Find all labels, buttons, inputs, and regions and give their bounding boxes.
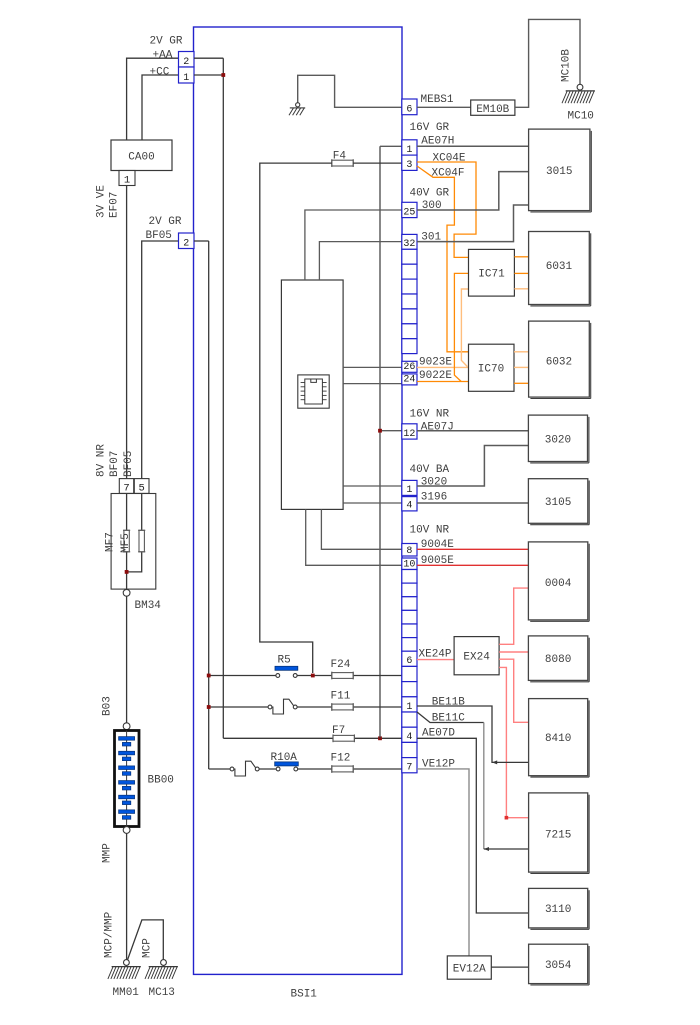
label MMP (rotated) xyxy=(102,843,114,863)
BSI pin 1 (AE07H) xyxy=(402,140,417,156)
svg-text:2: 2 xyxy=(183,57,189,68)
relay R5 label xyxy=(278,655,291,667)
wire 9022E (orange) xyxy=(417,381,469,383)
svg-text:8410: 8410 xyxy=(545,733,571,745)
label BE11B xyxy=(432,697,465,709)
BSI pin 1 (3020) xyxy=(402,480,417,496)
BSI pin 12 (AE07J) xyxy=(402,424,417,440)
connector BM34 xyxy=(123,589,161,612)
wire EX24 to 8080 (salmon) xyxy=(499,651,528,653)
BSI pin 32 (301) xyxy=(402,234,417,250)
fuse F24 label xyxy=(331,659,351,671)
wire through MF5 xyxy=(127,494,142,572)
svg-text:MF5: MF5 xyxy=(120,533,132,553)
junction pin12 / riser xyxy=(378,429,382,433)
wire 301 to 3015 xyxy=(417,205,529,242)
label 40V BA xyxy=(410,464,450,476)
unit 3054 xyxy=(529,944,590,985)
svg-text:MC10: MC10 xyxy=(568,111,594,123)
svg-text:1: 1 xyxy=(406,702,412,713)
unit 3110 xyxy=(529,888,590,929)
label 9023E xyxy=(419,357,452,369)
svg-text:AE07J: AE07J xyxy=(421,422,454,434)
BSI pin 8 (9004E) xyxy=(402,544,417,557)
svg-text:6: 6 xyxy=(406,105,412,116)
svg-text:F12: F12 xyxy=(331,753,351,765)
wire EF07 CA00 to fuse MF7 xyxy=(126,186,128,479)
wire F11 row xyxy=(209,706,402,708)
label BE11C xyxy=(432,713,465,725)
wire pin2 to +battery rail xyxy=(194,57,223,59)
svg-text:MEBS1: MEBS1 xyxy=(421,94,454,106)
label B03 (rotated) xyxy=(102,696,114,716)
wire 3196 to 3105 xyxy=(417,502,528,504)
unit 3015 xyxy=(529,129,592,212)
BSI left pin 2 xyxy=(179,52,195,68)
svg-text:F11: F11 xyxy=(331,691,351,703)
internal ground wire (MEBS1) xyxy=(298,75,402,107)
wire pin2 BF05 to rail xyxy=(194,240,209,242)
svg-text:40V GR: 40V GR xyxy=(410,188,450,200)
relay R5 coil bar xyxy=(275,666,298,670)
label +CC xyxy=(150,67,170,79)
unit IC70 xyxy=(469,344,515,391)
wire pin32 internal (301) xyxy=(319,242,401,280)
BF05 rail vertical xyxy=(208,241,210,769)
svg-text:BF05: BF05 xyxy=(146,230,172,242)
svg-text:BE11B: BE11B xyxy=(432,697,465,709)
svg-text:7215: 7215 xyxy=(545,830,571,842)
wire battery to ground xyxy=(126,833,128,959)
svg-text:8: 8 xyxy=(406,546,412,557)
wire pin26 internal xyxy=(343,366,402,368)
svg-text:1: 1 xyxy=(183,73,189,84)
svg-text:6031: 6031 xyxy=(546,261,573,273)
BSI pin 6 (MEBS1) xyxy=(402,99,417,116)
wire R10A row xyxy=(209,768,402,770)
wire R5 row xyxy=(209,675,402,677)
svg-text:1: 1 xyxy=(406,145,412,156)
svg-text:12: 12 xyxy=(403,429,415,440)
battery BB00 xyxy=(115,731,174,827)
ground MM01 xyxy=(108,960,141,999)
svg-text:2V GR: 2V GR xyxy=(150,36,183,48)
wire pin8 internal xyxy=(321,509,401,549)
BSI spare pin cells (below 10) xyxy=(402,570,417,652)
fuse F24 xyxy=(332,672,353,680)
svg-text:3V VE: 3V VE xyxy=(96,185,108,218)
internal riser wire xyxy=(379,146,381,738)
wire AE07D to 3110 xyxy=(417,738,528,913)
wire BE11C to 7215 xyxy=(417,712,528,851)
BSI pin 6 (XE24P) xyxy=(402,651,417,667)
label MEBS1 xyxy=(421,94,454,106)
wire through MF7 xyxy=(126,494,128,590)
svg-text:MF7: MF7 xyxy=(105,532,117,552)
wire AE07H to 3015 xyxy=(417,145,529,147)
svg-text:F24: F24 xyxy=(331,659,351,671)
svg-text:BM34: BM34 xyxy=(135,600,162,612)
BSI processor block xyxy=(281,280,343,509)
battery terminal circle bottom xyxy=(123,827,130,834)
wire 3020 lower link xyxy=(417,446,528,487)
wire MEBS1 to EM10B xyxy=(417,106,471,108)
wire XC04F (orange) xyxy=(417,166,469,352)
label 3020 xyxy=(421,477,447,489)
label AE07D xyxy=(422,728,455,740)
wires IC71 to 6031 xyxy=(514,257,528,289)
svg-text:EX24: EX24 xyxy=(463,652,490,664)
svg-text:10V NR: 10V NR xyxy=(410,525,450,537)
label 9004E xyxy=(421,539,454,551)
svg-text:1: 1 xyxy=(124,175,130,187)
label 9005E xyxy=(421,555,454,567)
switch contact (F11 row) xyxy=(268,699,297,714)
relay R10A contacts xyxy=(276,767,297,771)
wire XE24P (salmon) xyxy=(417,659,454,661)
unit EX24 xyxy=(454,637,499,675)
wires IC70 to 6032 xyxy=(514,352,529,384)
battery terminal circle top xyxy=(123,723,130,730)
BSI pin 24 (9022E) xyxy=(402,374,417,386)
fuse F12 label xyxy=(331,753,351,765)
relay R5 contacts xyxy=(276,674,297,678)
BSI pin 4 (3196) xyxy=(402,497,417,512)
CA00 pin 1 xyxy=(119,171,135,187)
label XE24P xyxy=(419,649,452,661)
label MCP (rotated) xyxy=(142,938,154,958)
switch contact (R10A row) xyxy=(230,761,259,776)
junction F7 / distribution riser xyxy=(378,736,382,740)
junction BF05 rail / F11 xyxy=(207,705,211,709)
svg-text:4: 4 xyxy=(406,501,412,512)
BSI spare cell xyxy=(402,742,417,757)
wire +CC to pin 1 xyxy=(142,75,179,140)
fuse F11 xyxy=(332,703,353,711)
unit 3105 xyxy=(528,479,589,525)
svg-text:10: 10 xyxy=(403,559,415,570)
svg-text:BSI1: BSI1 xyxy=(291,989,318,1001)
label EF07 (rotated) xyxy=(109,192,121,218)
unit IC71 xyxy=(469,249,515,296)
svg-text:16V NR: 16V NR xyxy=(410,409,450,421)
fuse F11 label xyxy=(331,691,351,703)
svg-text:3015: 3015 xyxy=(546,166,572,178)
wire EX24 to 0004 (salmon) xyxy=(499,588,528,644)
label 10V NR xyxy=(410,525,450,537)
BSI pin 10 (9005E) xyxy=(402,558,417,570)
label XC04E xyxy=(433,153,466,165)
svg-text:2: 2 xyxy=(183,238,189,249)
label MCP/MMP (rotated) xyxy=(104,911,116,958)
unit 7215 xyxy=(529,793,590,874)
svg-text:R5: R5 xyxy=(278,655,291,667)
BSI pin 26 (9023E) xyxy=(402,361,417,373)
fuse F4 xyxy=(332,159,353,167)
BSI pin 4 (AE07D) xyxy=(402,727,417,743)
svg-text:24: 24 xyxy=(403,375,415,386)
BSI pin 3 (XC04) xyxy=(402,155,417,171)
label 16V NR xyxy=(410,409,450,421)
label XC04F xyxy=(432,168,465,180)
junction MF5/MF7 xyxy=(125,570,129,574)
svg-text:3196: 3196 xyxy=(421,492,447,504)
wire pin4 (3196) internal xyxy=(343,502,402,504)
unit EV12A xyxy=(447,956,491,979)
wire MCP to MC13 xyxy=(128,920,164,960)
svg-text:XE24P: XE24P xyxy=(419,649,452,661)
label 2V GR (top) xyxy=(150,36,183,48)
svg-text:3105: 3105 xyxy=(545,497,571,509)
svg-text:BF05: BF05 xyxy=(123,451,135,477)
wire AE07J to 3020 xyxy=(417,430,528,432)
wire EM10B to ground MC10 xyxy=(515,19,580,107)
fuse MF7 xyxy=(123,530,130,552)
BSI left pin 2 (BF05) xyxy=(179,233,195,249)
svg-text:MC10B: MC10B xyxy=(561,49,573,82)
label BF07 (rotated) xyxy=(109,451,121,477)
BSI spare cell xyxy=(402,712,417,727)
label BF05 (rotated) xyxy=(123,451,135,477)
svg-text:4: 4 xyxy=(406,732,412,743)
label 2V GR (BF05) xyxy=(149,216,182,228)
BSI unit box BSI1 xyxy=(194,27,403,1001)
wire XC04E (orange) xyxy=(417,162,476,257)
fusebox pin 5 xyxy=(134,479,149,495)
svg-text:BB00: BB00 xyxy=(148,775,174,787)
svg-text:EM10B: EM10B xyxy=(476,104,509,116)
svg-text:26: 26 xyxy=(403,362,415,373)
wire 9005E (red) xyxy=(417,564,528,566)
svg-text:6: 6 xyxy=(406,656,412,667)
svg-text:3054: 3054 xyxy=(545,960,572,972)
label 9022E xyxy=(419,370,452,382)
svg-text:+CC: +CC xyxy=(150,67,170,79)
svg-text:5: 5 xyxy=(138,483,144,495)
svg-text:3020: 3020 xyxy=(421,477,447,489)
wire F4 net (pin 3 feed) xyxy=(260,163,402,673)
wire 9004E (red) xyxy=(417,548,528,550)
svg-text:3110: 3110 xyxy=(545,904,571,916)
svg-text:0004: 0004 xyxy=(545,578,572,590)
svg-text:MM01: MM01 xyxy=(113,987,140,999)
label +AA xyxy=(153,50,173,62)
wire 9023E (light orange) xyxy=(417,366,469,368)
label 300 xyxy=(422,200,442,212)
label BF05 xyxy=(146,230,172,242)
wire IC71 to IC70 (orange link) xyxy=(454,273,468,381)
wire pin1 (3020) internal xyxy=(343,485,402,487)
unit 8410 xyxy=(529,699,590,778)
wire EX24 to 8410 (salmon) xyxy=(499,659,528,722)
relay R10A coil bar xyxy=(275,762,299,766)
fusebox pin 7 xyxy=(119,479,133,495)
svg-text:MCP: MCP xyxy=(142,938,154,958)
svg-text:EV12A: EV12A xyxy=(453,964,486,976)
svg-text:B03: B03 xyxy=(102,696,114,716)
wire BF05 left xyxy=(142,241,179,479)
junction R5 / F4 net xyxy=(311,674,315,678)
svg-text:XC04E: XC04E xyxy=(433,153,466,165)
wire EV12A to 3054 xyxy=(491,966,528,968)
label AE07H xyxy=(421,136,454,148)
svg-text:8080: 8080 xyxy=(545,654,571,666)
BSI spare cell xyxy=(402,682,417,697)
svg-text:MC13: MC13 xyxy=(149,987,175,999)
svg-text:IC70: IC70 xyxy=(478,364,504,376)
svg-text:MCP/MMP: MCP/MMP xyxy=(104,911,116,958)
wire +AA to pin 2 xyxy=(127,58,179,140)
svg-text:7: 7 xyxy=(406,763,412,774)
svg-text:25: 25 xyxy=(403,207,415,218)
fuse MF5 xyxy=(138,530,145,552)
internal ground symbol xyxy=(289,103,305,116)
label AE07J xyxy=(421,422,454,434)
svg-text:6032: 6032 xyxy=(546,357,572,369)
wire IC71 to IC70 (light link) xyxy=(461,289,468,367)
svg-text:7: 7 xyxy=(123,483,129,495)
svg-text:EF07: EF07 xyxy=(109,192,121,218)
unit 3020 xyxy=(528,415,589,463)
label 16V GR xyxy=(410,122,450,134)
fuse F12 xyxy=(332,765,353,773)
BSI pin 1 (BE11) xyxy=(402,697,417,713)
unit 8080 xyxy=(528,636,589,682)
junction BF05 rail / R5 xyxy=(207,674,211,678)
wire VE12P to EV12A xyxy=(417,769,469,956)
wire pin24 internal xyxy=(343,383,402,385)
wire pin1 internal stub xyxy=(380,145,402,147)
unit CA00 (ignition switch) xyxy=(111,140,172,171)
BSI spare cell (F24) xyxy=(402,666,417,681)
unit 6032 xyxy=(529,321,591,398)
wire pin10 internal xyxy=(306,509,402,565)
wire BM34 to battery xyxy=(126,596,128,723)
svg-text:2V GR: 2V GR xyxy=(149,216,182,228)
svg-text:3: 3 xyxy=(406,160,412,171)
svg-text:BF07: BF07 xyxy=(109,451,121,477)
BSI pin 7 (VE12P) xyxy=(402,758,417,774)
svg-text:8V NR: 8V NR xyxy=(96,444,108,477)
battery + rail vertical xyxy=(222,58,224,738)
fuse F4 label xyxy=(333,150,347,162)
svg-text:MMP: MMP xyxy=(102,843,114,863)
fuse F7 xyxy=(333,734,354,742)
unit 0004 xyxy=(528,542,589,621)
wire pin12 internal stub xyxy=(380,430,402,432)
svg-text:1: 1 xyxy=(406,485,412,496)
svg-text:IC71: IC71 xyxy=(478,269,505,281)
label 8V NR (rotated) xyxy=(96,444,108,477)
label 3V VE (rotated) xyxy=(96,185,108,218)
label 40V GR xyxy=(410,188,450,200)
label 301 xyxy=(421,232,441,244)
svg-text:40V BA: 40V BA xyxy=(410,464,450,476)
relay R10A label xyxy=(271,752,298,764)
wire pin25 internal (300) xyxy=(305,210,402,280)
BSI left pin 1 xyxy=(179,67,195,84)
ground MC13 xyxy=(145,960,178,999)
wire F7 row (battery rail to pin 4) xyxy=(223,737,401,739)
svg-text:+AA: +AA xyxy=(153,50,173,62)
svg-text:9022E: 9022E xyxy=(419,370,452,382)
unit EM10B xyxy=(471,100,515,116)
wire 300 to 3015 xyxy=(417,172,529,210)
wire EX24 to 7215 (salmon) xyxy=(499,667,528,819)
label VE12P xyxy=(422,759,455,771)
unit 6031 xyxy=(529,232,591,306)
wire pin1 to junction xyxy=(194,74,223,76)
svg-text:CA00: CA00 xyxy=(128,152,154,164)
fuse F7 label xyxy=(332,725,345,737)
label MF5 (rotated) xyxy=(120,533,132,553)
BSI spare pin cells (below 32) xyxy=(402,249,417,353)
label 3196 xyxy=(421,492,447,504)
microcontroller chip symbol xyxy=(298,375,329,408)
label MF7 (rotated) xyxy=(105,532,117,552)
svg-text:3020: 3020 xyxy=(545,434,571,446)
BSI pin 25 (300) xyxy=(402,202,417,218)
svg-text:16V GR: 16V GR xyxy=(410,122,450,134)
wire BE11B to 8410 xyxy=(417,706,529,764)
ground MC10 xyxy=(562,84,595,122)
fusebox outline xyxy=(111,494,156,590)
svg-text:32: 32 xyxy=(403,239,415,250)
label MC10B (rotated) xyxy=(561,49,573,82)
junction +CC rail xyxy=(221,73,225,77)
